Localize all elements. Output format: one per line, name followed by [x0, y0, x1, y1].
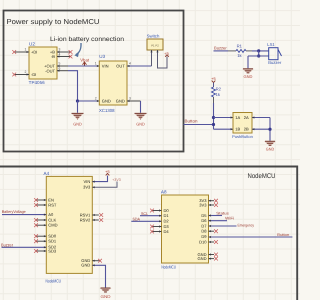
wire between buzzer nodes [258, 51, 260, 56]
svg-text:SD1: SD1 [48, 239, 57, 244]
pin D3 A8 [152, 226, 162, 228]
pin D8 A8 [209, 230, 215, 232]
svg-text:Vbat: Vbat [80, 58, 90, 63]
svg-text:BatteryVoltage: BatteryVoltage [2, 209, 27, 214]
svg-text:WiFi: WiFi [225, 217, 234, 221]
svg-text:Button: Button [277, 233, 289, 237]
wire node down to ground [77, 101, 79, 113]
pin 5 U2 +OUT [57, 62, 68, 67]
svg-text:SDA: SDA [133, 216, 141, 221]
pin 3V3b A8 [209, 204, 215, 206]
svg-text:GND: GND [116, 99, 125, 104]
pin 4 U3 OUT wire to switch [127, 62, 152, 67]
svg-text:A8: A8 [161, 190, 167, 195]
svg-text:D8: D8 [201, 229, 207, 234]
pin 3V3a A8 [209, 200, 215, 202]
svg-text:Buzzer: Buzzer [268, 60, 282, 65]
svg-text:U2: U2 [29, 42, 35, 47]
wire 2B right [252, 128, 270, 130]
svg-text:RSV2: RSV2 [80, 217, 91, 222]
ground symbol (TP4056) [72, 113, 84, 119]
svg-text:NodeMCU: NodeMCU [46, 278, 62, 283]
svg-text:GND: GND [73, 122, 82, 127]
svg-text:GND: GND [101, 294, 111, 299]
svg-text:3: 3 [59, 48, 61, 52]
svg-text:GND: GND [244, 74, 253, 79]
svg-text:Switch: Switch [147, 33, 160, 38]
svg-text:VIN: VIN [102, 64, 109, 69]
svg-text:RST: RST [48, 202, 57, 207]
no-ERC X SD1 [34, 239, 38, 243]
no-ERC X GNDa [214, 253, 218, 257]
ground symbol (buzzer net) [242, 69, 254, 74]
svg-text:D1: D1 [164, 213, 170, 218]
switch left pin wire [151, 50, 153, 66]
no-ERC X pin2 [12, 73, 16, 77]
pin D0 A8 [152, 210, 162, 212]
no-ERC X CLK [34, 218, 38, 222]
pin 4 U2 -B [57, 52, 70, 56]
svg-text:2B: 2B [244, 127, 249, 132]
no-ERC X D4 [150, 230, 154, 234]
pin direction arrows on all IC pins [27, 50, 255, 266]
svg-text:3V3: 3V3 [83, 184, 91, 189]
node buzzer pin2 [257, 54, 260, 57]
svg-text:-OUT: -OUT [45, 68, 55, 73]
svg-text:+5: +5 [105, 169, 110, 174]
pin RSV1 A4 [92, 214, 99, 216]
no-ERC X SD0 [34, 234, 38, 238]
pin RST A4 [36, 204, 46, 206]
node buzzer pin1 [257, 49, 260, 52]
wire GND2 to ground [92, 265, 105, 287]
wire Button label [184, 124, 214, 126]
svg-text:Button: Button [185, 119, 199, 124]
pin 2 U2 [15, 70, 29, 75]
svg-text:-DI: -DI [31, 72, 36, 77]
svg-text:VIN: VIN [84, 179, 91, 184]
node Button tee [212, 123, 215, 126]
wire 2A to 2B vertical [269, 118, 271, 141]
svg-text:1B: 1B [235, 127, 240, 132]
svg-text:2: 2 [95, 97, 97, 101]
svg-text:CMD: CMD [48, 223, 57, 228]
wire VIN to +5 [92, 176, 107, 182]
wire 3V3 to +3V3 [92, 182, 117, 188]
no-ERC X 3V3b [214, 203, 218, 207]
pushbutton S2 [232, 113, 253, 140]
pin CMD A4 [36, 224, 46, 226]
svg-text:GND: GND [136, 122, 145, 127]
wire SCL to D1 [140, 215, 162, 217]
pin GNDb A8 [209, 258, 215, 260]
no-ERC X D8 [214, 229, 218, 233]
pin GNDa A8 [209, 254, 215, 256]
wire D9 Button [209, 236, 293, 238]
pin SD3 A4 [36, 250, 46, 252]
svg-text:U3: U3 [99, 54, 105, 59]
no-ERC X D10 [214, 240, 218, 244]
svg-text:4: 4 [129, 62, 131, 66]
svg-text:PushButton: PushButton [232, 134, 253, 139]
no-ERC X RSV2 [99, 218, 103, 222]
no-ERC X GND1 [98, 259, 102, 263]
pin RSV2 A4 [92, 219, 99, 221]
wire SDA to D2 [131, 220, 161, 222]
svg-text:TP4056: TP4056 [29, 80, 46, 85]
no-ERC X RSV1 [99, 213, 103, 217]
svg-text:2A: 2A [244, 115, 249, 120]
svg-text:2: 2 [25, 70, 27, 74]
wire +OUT to VIN [68, 65, 99, 67]
svg-text:Power supply to NodeMCU: Power supply to NodeMCU [7, 18, 100, 26]
pin 3 U2 +B [57, 48, 70, 53]
wire 2A right [252, 117, 270, 119]
pin CLK A4 [36, 219, 46, 221]
IC A4 NodeMCU [44, 171, 93, 283]
svg-text:D2: D2 [164, 218, 170, 223]
svg-text:OUT: OUT [116, 64, 125, 69]
wire -OUT down [68, 71, 78, 101]
node pushbutton 1A [212, 116, 215, 119]
svg-text:R1: R1 [237, 43, 243, 48]
pin 1 U2 [15, 48, 29, 53]
section box: Power supply to NodeMCU [4, 11, 184, 152]
svg-text:GND: GND [81, 263, 90, 268]
svg-text:+3V3: +3V3 [112, 178, 120, 182]
svg-text:D4: D4 [164, 229, 170, 234]
IC U3 XC1308 regulator [99, 54, 127, 113]
wire node to U3 GND pin2 [78, 100, 100, 102]
svg-text:1A: 1A [235, 115, 240, 120]
wire pin3 down to ground [140, 101, 142, 113]
section box: NodeMCU [0, 167, 297, 300]
svg-text:A4: A4 [44, 171, 50, 176]
svg-text:1: 1 [95, 62, 97, 66]
pin EN A4 [36, 199, 46, 201]
power port Vbat [80, 58, 90, 66]
svg-text:5: 5 [59, 62, 61, 66]
no-ERC X CMD [34, 223, 38, 227]
ground symbol (U3) [135, 113, 147, 119]
svg-text:GND: GND [102, 99, 111, 104]
svg-text:LS1: LS1 [267, 42, 275, 47]
wire to ground (buzzer) [247, 56, 249, 68]
svg-text:Emergency: Emergency [238, 223, 255, 227]
no-ERC X D3 [150, 225, 154, 229]
pin GND1 A4 [92, 260, 99, 262]
svg-text:Li-ion battery connection: Li-ion battery connection [50, 36, 125, 43]
svg-text:SD3: SD3 [48, 249, 57, 254]
svg-text:CLK: CLK [48, 217, 56, 222]
svg-text:P1 P2: P1 P2 [151, 44, 159, 48]
svg-text:GND: GND [266, 146, 275, 151]
svg-text:D6: D6 [201, 218, 207, 223]
svg-text:A0: A0 [48, 212, 54, 217]
no-ERC X EN [34, 198, 38, 202]
wire Buzzer to SD2 [2, 246, 47, 248]
node 2B junction [268, 128, 271, 131]
no-ERC X RST [34, 203, 38, 207]
svg-text:XC1308: XC1308 [99, 108, 115, 113]
wire to 1B [214, 128, 234, 130]
pin 6 U2 -OUT [57, 67, 68, 71]
svg-text:D9: D9 [201, 234, 207, 239]
svg-text:-B: -B [51, 54, 55, 59]
pin D10 A8 [209, 241, 215, 243]
wire R1 to buzzer [246, 50, 252, 52]
no-ERC X 3V3a [214, 199, 218, 203]
no-ERC X pin3 [69, 50, 73, 54]
pin D4 A8 [152, 231, 162, 233]
pin 3 U3 GND [127, 97, 141, 102]
svg-text:GND: GND [198, 256, 207, 261]
wire node to 1A [214, 117, 234, 119]
wire +5 to R2 [213, 83, 215, 87]
buzzer LS1 [267, 42, 282, 65]
resistor R1 [236, 43, 246, 57]
wire D6 WiFi [209, 220, 228, 222]
svg-text:NodeMCU: NodeMCU [161, 264, 176, 269]
svg-text:Buzzer: Buzzer [214, 46, 227, 51]
IC A8 NodeMCU [161, 190, 209, 270]
power port +5 (R2) [211, 76, 216, 82]
wire BatteryVoltage to A0 [2, 214, 46, 216]
annotation arrow [74, 43, 81, 57]
svg-text:1: 1 [25, 48, 27, 52]
power port +5 (switch) [164, 51, 169, 57]
resistor R2 [212, 87, 222, 97]
IC U2 TP4056 [29, 42, 57, 86]
no-ERC X GNDb [214, 257, 218, 261]
svg-text:+DI: +DI [31, 50, 37, 55]
wire Buzzer to R1 [214, 50, 229, 52]
svg-text:Status: Status [216, 211, 229, 215]
svg-text:3: 3 [129, 97, 131, 101]
ground symbol (A4) [100, 288, 112, 293]
pin SD0 A4 [36, 235, 46, 237]
svg-text:3V3: 3V3 [199, 202, 207, 207]
switch right pin wire to +5 [158, 50, 168, 68]
wire buzzer pin2 stub [248, 55, 269, 57]
junction node [76, 99, 79, 102]
no-ERC X D0 [150, 209, 154, 213]
no-ERC X SD3 [34, 249, 38, 253]
wire D5 Status [209, 215, 223, 217]
svg-text:NodeMCU: NodeMCU [248, 173, 276, 180]
svg-text:D10: D10 [199, 239, 207, 244]
switch S1 [147, 33, 163, 50]
power port +5 (A4) [105, 169, 110, 176]
svg-text:Buzzer: Buzzer [1, 242, 14, 247]
no-ERC X pin4 [69, 55, 73, 59]
wire D7 Emergency [209, 225, 237, 227]
ground symbol (pushbutton) [264, 141, 276, 146]
pin SD1 A4 [36, 240, 46, 242]
wire R2 down [213, 97, 215, 103]
no-ERC X pin1 [12, 50, 16, 54]
